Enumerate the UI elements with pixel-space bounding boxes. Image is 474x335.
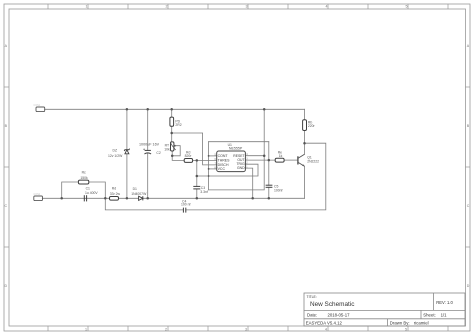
svg-text:150k: 150k <box>80 176 88 180</box>
wire C5 bottom lead <box>268 187 270 198</box>
frame zone numbers top <box>86 5 408 9</box>
junction THRES node <box>196 159 199 162</box>
svg-text:C2: C2 <box>156 151 160 155</box>
wire emitter riser <box>304 166 306 198</box>
svg-text:D: D <box>4 284 7 288</box>
svg-text:C1: C1 <box>86 186 90 190</box>
junction h2 x v1 <box>208 175 210 177</box>
frame zone numbers bottom <box>85 328 407 332</box>
IC pin numbers <box>214 153 216 169</box>
wire bottom main mid <box>119 197 139 199</box>
svg-text:2018-05-17: 2018-05-17 <box>328 312 351 317</box>
junction bottom wire x C5 <box>268 197 271 200</box>
wire top rail drop to Rb <box>304 109 306 119</box>
svg-text:5: 5 <box>405 328 407 332</box>
svg-text:Date:: Date: <box>307 312 317 317</box>
wire lower rail right <box>186 143 326 210</box>
svg-text:REV: 1.0: REV: 1.0 <box>436 300 453 305</box>
potentiometer RT <box>164 142 175 152</box>
wire pot to Rd820 <box>172 156 184 161</box>
svg-text:2R2: 2R2 <box>175 123 181 127</box>
wire Rc branch right <box>89 182 106 198</box>
svg-text:DZ: DZ <box>113 149 118 153</box>
capacitor C3 <box>193 186 200 189</box>
junction collector node <box>303 142 306 145</box>
wire TRIG tie h2 <box>197 164 258 176</box>
junction top rail x C2 <box>146 108 149 111</box>
svg-text:12v 1/2W: 12v 1/2W <box>108 154 123 158</box>
wire h3 reset link <box>209 156 265 190</box>
svg-text:NE555P: NE555P <box>229 147 243 151</box>
wire bottom main left <box>42 197 109 199</box>
svg-text:CONT: CONT <box>218 154 229 158</box>
connector P1 <box>34 104 45 112</box>
svg-text:C: C <box>467 204 470 208</box>
frame zone ticks left/right <box>4 87 470 247</box>
wire VCC stub <box>209 168 217 170</box>
zener DZ <box>108 149 130 159</box>
svg-text:D1: D1 <box>133 187 137 191</box>
svg-text:100 nf: 100 nf <box>181 203 190 207</box>
junction CONT x v1 <box>208 155 210 157</box>
wire THRES node down to C3 <box>196 160 198 186</box>
wire v4 down to C5 <box>268 142 270 186</box>
svg-text:ricamiel: ricamiel <box>414 320 429 325</box>
title block text <box>306 295 454 326</box>
junction PD / RT / DISCH node <box>170 132 173 135</box>
wire DZ vertical <box>126 109 128 149</box>
svg-text:CON1: CON1 <box>34 104 41 107</box>
resistor Re <box>275 151 284 162</box>
wire OUT to Re <box>245 159 275 161</box>
capacitor C5 <box>266 185 273 187</box>
wire pot wiper loop <box>172 146 180 156</box>
svg-text:Rc: Rc <box>82 170 86 174</box>
wire Rc branch <box>62 182 79 198</box>
frame zone ticks top <box>48 4 448 9</box>
resistor Rd 820r <box>184 151 192 163</box>
svg-text:THRES: THRES <box>218 159 231 163</box>
svg-text:New Schematic: New Schematic <box>310 301 355 308</box>
svg-text:100nf: 100nf <box>274 188 283 192</box>
svg-text:2: 2 <box>165 328 167 332</box>
wire v3 rail to RESET <box>263 109 265 155</box>
capacitor C1 <box>84 195 86 201</box>
resistor PD <box>170 117 182 127</box>
svg-text:1N4007W: 1N4007W <box>131 192 147 196</box>
svg-text:4: 4 <box>325 328 327 332</box>
frame zone ticks bottom <box>48 326 448 331</box>
junction RESET node <box>263 154 266 157</box>
wire PD vertical <box>171 109 173 117</box>
svg-text:3.3nf: 3.3nf <box>200 190 208 194</box>
frame zone letters right <box>467 44 470 288</box>
svg-text:1: 1 <box>86 5 88 9</box>
svg-text:GND: GND <box>237 166 245 170</box>
resistor Rb <box>303 120 316 131</box>
svg-text:Drawn By:: Drawn By: <box>390 320 410 325</box>
transistor Q1 <box>298 154 305 166</box>
svg-text:TITLE:: TITLE: <box>307 295 317 299</box>
wire PD to DISCH <box>172 133 217 165</box>
junction bottom wire x lower rail drop <box>104 197 107 200</box>
svg-text:1/1: 1/1 <box>441 312 448 317</box>
svg-text:VCC: VCC <box>218 167 226 171</box>
svg-text:33r 2w: 33r 2w <box>110 192 121 196</box>
junction bottom wire x DZ <box>126 197 128 200</box>
svg-text:Rd: Rd <box>112 187 116 191</box>
svg-text:D: D <box>467 284 470 288</box>
wire Re to base <box>284 159 298 161</box>
wire Rb bottom lead <box>304 131 306 144</box>
junction OUT x C5 branch <box>268 159 271 162</box>
svg-text:820r: 820r <box>185 154 193 158</box>
junction top rail x DZ <box>126 108 128 111</box>
capacitor C4 <box>183 208 185 213</box>
svg-text:1k: 1k <box>279 154 283 158</box>
wire lower rail left <box>105 198 183 210</box>
junction bottom wire x Rc branch <box>60 197 63 200</box>
junction top rail x PD <box>170 108 173 111</box>
junction VCC x v1 <box>208 168 210 170</box>
svg-text:220r: 220r <box>308 124 316 128</box>
IC U1 NE555P <box>217 143 246 172</box>
junction bottom wire x C3 <box>196 197 199 200</box>
junction THRES-TRIG tie <box>196 175 199 178</box>
junction bottom wire x C2 <box>146 197 149 200</box>
svg-text:2: 2 <box>166 5 168 9</box>
svg-text:EASYEDA V5.4.12: EASYEDA V5.4.12 <box>306 320 343 325</box>
svg-text:1: 1 <box>85 328 87 332</box>
wire GND drop <box>245 168 252 198</box>
resistor Rc <box>78 170 88 184</box>
svg-text:5: 5 <box>406 5 408 9</box>
connector P2 <box>34 193 43 201</box>
junction RT wiper tie <box>171 155 174 158</box>
svg-text:1u 400V: 1u 400V <box>85 191 98 195</box>
title block <box>304 293 465 326</box>
wire THRES <box>197 159 217 161</box>
wire collector riser <box>304 143 306 154</box>
svg-text:Sheet:: Sheet: <box>423 312 435 317</box>
wire h0 top box <box>209 141 269 143</box>
svg-text:10k: 10k <box>164 147 170 151</box>
svg-text:3: 3 <box>245 328 247 332</box>
wire v1 vertical <box>208 142 210 190</box>
svg-text:+: + <box>143 148 145 152</box>
wire Rd820 to THRES node <box>193 159 197 161</box>
svg-text:3: 3 <box>246 5 248 9</box>
junction bottom wire x GND drop <box>251 197 254 200</box>
wire top rail <box>45 108 305 110</box>
wire C2 vertical <box>147 109 149 150</box>
wire CONT stub <box>209 155 217 157</box>
svg-text:4: 4 <box>326 5 328 9</box>
wire bottom main right <box>143 197 305 199</box>
wire RESET stub <box>245 155 264 157</box>
frame zone letters left <box>4 44 7 288</box>
diode D1 <box>131 187 147 200</box>
svg-text:C: C <box>4 204 7 208</box>
svg-text:CON2: CON2 <box>34 193 41 196</box>
svg-text:1000uF 16V: 1000uF 16V <box>139 142 160 146</box>
capacitor C2 electrolytic <box>144 150 151 154</box>
wire pot top lead <box>171 133 173 142</box>
wire pot bottom lead <box>171 151 173 156</box>
svg-text:2N2222: 2N2222 <box>307 159 319 163</box>
wire C3 bottom lead <box>196 189 198 198</box>
resistor Rd 33r <box>110 187 121 200</box>
junction top rail x RESET feed <box>263 108 266 111</box>
